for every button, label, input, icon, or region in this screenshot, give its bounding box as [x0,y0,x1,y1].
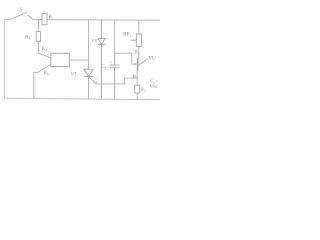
svg-text:B1: B1 [133,75,138,80]
wire B1 lead [136,71,138,86]
svg-text:VT: VT [70,73,77,78]
box load [51,53,70,66]
resistor R1 [37,20,39,54]
wire emitter run [115,53,135,64]
thyristor VT [84,69,94,99]
wire C1 column upper [114,20,116,53]
svg-text:+: + [110,60,113,65]
switch S [11,12,34,19]
UJT VU leader and label [139,59,148,66]
svg-text:B2: B2 [134,50,139,55]
svg-text:R1: R1 [25,34,31,40]
svg-text:65Ω: 65Ω [150,84,158,89]
svg-text:VU: VU [148,55,156,61]
svg-text:C1: C1 [101,64,106,70]
svg-text:RP1: RP1 [123,31,132,37]
svg-text:Ka: Ka [42,46,48,52]
wire SCR anode column [88,20,90,69]
wire box output [69,59,88,61]
potentiometer RP1 [138,20,140,34]
contact Ka [38,53,51,58]
capacitor C1 [110,53,120,99]
svg-text:R2: R2 [140,87,145,93]
wire left rail [4,19,6,98]
svg-text:G: G [94,80,98,85]
contact Kb [34,63,54,99]
relay coil K [42,14,47,25]
resistor R2 [135,85,140,93]
svg-text:VS: VS [91,40,97,45]
svg-text:S: S [20,8,23,14]
wire top rail [5,18,161,21]
UJT VU bar [137,59,139,71]
wire B2 lead [138,47,139,59]
wire bottom rail [5,98,161,100]
zener VS [97,20,105,99]
svg-text:Kb: Kb [44,70,50,76]
wire R2 bottom lead [136,93,138,100]
wire gate [89,77,137,84]
svg-text:K: K [48,14,52,20]
